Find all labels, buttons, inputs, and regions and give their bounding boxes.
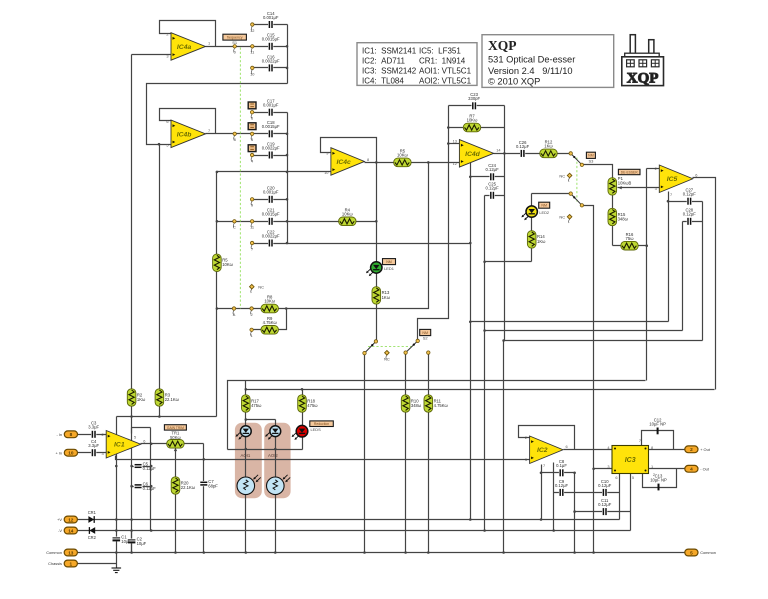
svg-text:0.12μF: 0.12μF: [143, 466, 157, 471]
wire row-B IC5 output feed: [246, 389, 715, 391]
wire C28 row: [683, 221, 703, 223]
svg-text:0.0015μF: 0.0015μF: [262, 124, 280, 129]
capacitor C6: [134, 482, 156, 491]
svg-text:3: 3: [525, 457, 527, 462]
resistor R16: [621, 232, 638, 250]
svg-text:NM: NM: [541, 204, 547, 208]
wire IC5 output: [693, 178, 716, 390]
svg-text:0.001μF: 0.001μF: [263, 190, 279, 195]
svg-text:68pF: 68pF: [208, 483, 218, 488]
svg-text:1Kω: 1Kω: [137, 397, 146, 402]
svg-text:A: A: [233, 312, 236, 317]
svg-text:2: 2: [690, 447, 693, 452]
wire R4 row right: [356, 221, 377, 223]
NC node stage select: [250, 284, 255, 293]
op-amp IC4c: [324, 148, 369, 176]
svg-text:7: 7: [251, 246, 253, 251]
svg-text:AOI2: VTL5C1: AOI2: VTL5C1: [419, 76, 472, 85]
node 4: [250, 153, 254, 163]
svg-text:6: 6: [695, 173, 697, 178]
svg-text:CR1: 1N914: CR1: 1N914: [419, 56, 466, 65]
wire IC4d pin4 column: [470, 161, 472, 322]
capacitor C16: [262, 54, 280, 72]
capacitor C25: [486, 182, 500, 200]
op-amp IC2: [525, 435, 568, 468]
wire LED2-R14 column: [531, 194, 533, 262]
wire -V drop x484: [484, 331, 486, 531]
node 2: [250, 307, 253, 317]
svg-text:CR2: CR2: [88, 535, 97, 540]
resistor R17: [242, 395, 263, 412]
svg-text:330pF: 330pF: [468, 96, 480, 101]
svg-text:NC: NC: [384, 356, 390, 361]
svg-text:9: 9: [326, 151, 328, 156]
wire S3-lower input row: [532, 193, 571, 195]
resistor R12: [540, 140, 557, 158]
wire C2 stub: [131, 531, 133, 553]
svg-text:5: 5: [134, 435, 136, 440]
svg-text:5: 5: [690, 550, 693, 555]
svg-text:NM: NM: [422, 331, 428, 335]
wire C20 row: [253, 199, 288, 201]
capacitor C10: [598, 479, 612, 497]
capacitor C4: [88, 439, 99, 457]
svg-text:GAIN TRIM: GAIN TRIM: [167, 426, 184, 430]
terminal 1 (Chassis): [48, 560, 77, 567]
jumper pad J1: [248, 123, 256, 130]
svg-text:7: 7: [208, 128, 210, 133]
terminal 4 (-Out): [685, 465, 710, 472]
capacitor C28: [683, 208, 697, 226]
wire C17 row: [253, 112, 288, 114]
svg-text:DE-ESSER: DE-ESSER: [621, 170, 638, 174]
svg-text:9: 9: [251, 203, 253, 208]
svg-text:10KωB: 10KωB: [618, 180, 632, 185]
svg-text:IC5: LF351: IC5: LF351: [419, 46, 461, 55]
svg-text:0.0022μF: 0.0022μF: [262, 145, 280, 150]
wire node-A row: [217, 163, 429, 309]
svg-text:© 2010 XQP: © 2010 XQP: [488, 77, 540, 87]
svg-text:75ω: 75ω: [626, 236, 635, 241]
svg-text:5: 5: [251, 137, 253, 142]
resistor R9: [261, 316, 278, 334]
wire common drop x503: [503, 341, 505, 553]
capacitor C1 (electrolytic): [112, 534, 132, 543]
svg-text:3: 3: [607, 464, 609, 469]
wire C11 row: [575, 511, 631, 513]
node 7: [250, 241, 253, 251]
svg-text:Reduction: Reduction: [314, 422, 329, 426]
label box S3: [586, 152, 595, 163]
svg-text:3: 3: [655, 186, 657, 191]
wire stage-B right bus: [287, 113, 289, 244]
svg-text:22.1Kω: 22.1Kω: [181, 485, 196, 490]
svg-text:NC: NC: [559, 215, 565, 220]
wire IC4c feedback loop: [321, 138, 377, 163]
svg-text:IC1: SSM2141: IC1: SSM2141: [362, 46, 417, 55]
wire IC4a output row: [206, 46, 288, 48]
wire -Out row: [649, 468, 685, 470]
svg-text:3.3μF: 3.3μF: [88, 443, 99, 448]
svg-text:IC1: IC1: [114, 442, 125, 449]
resistor R13: [372, 287, 391, 304]
wire C22 row: [253, 243, 288, 245]
wire TR1 wiper R20 column: [175, 448, 177, 553]
svg-text:10Kω: 10Kω: [222, 262, 233, 267]
capacitor C27: [683, 188, 697, 206]
jumper pad J3: [248, 145, 256, 152]
svg-text:1: 1: [651, 464, 653, 469]
svg-text:0.12μF: 0.12μF: [516, 144, 530, 149]
wire IC2 pin7 column: [541, 465, 543, 520]
svg-text:1: 1: [251, 333, 253, 338]
svg-text:0.0022μF: 0.0022μF: [262, 233, 280, 238]
node S2 throw left: [363, 351, 366, 354]
svg-text:3.3μF: 3.3μF: [88, 425, 99, 430]
LED blue AOI2: [265, 426, 281, 440]
wire stage-A return to IC4b: [147, 84, 288, 145]
wire IC4d pin13 row: [449, 143, 460, 145]
resistor R5: [213, 254, 234, 271]
svg-text:2: 2: [102, 432, 104, 437]
resistor R5b: [394, 149, 411, 167]
capacitor C21: [262, 208, 280, 226]
svg-text:6: 6: [615, 475, 617, 480]
svg-text:S3: S3: [588, 158, 594, 163]
resistor R7: [463, 114, 480, 132]
capacitor C14: [263, 11, 279, 29]
wire IC5 pin2 row: [647, 168, 660, 170]
resistor R15: [608, 208, 629, 225]
wire photocell2 bottom: [275, 495, 277, 553]
terminal 14 (-V): [58, 527, 77, 534]
svg-text:13: 13: [68, 550, 74, 555]
resistor R3: [155, 389, 180, 406]
op-amp IC4a: [166, 32, 210, 61]
label box reduction LEDs: [310, 421, 334, 427]
svg-text:10Kω: 10Kω: [467, 118, 478, 123]
svg-text:531 Optical De-esser: 531 Optical De-esser: [488, 55, 575, 65]
potentiometer P1: [608, 178, 617, 195]
svg-text:2: 2: [655, 166, 657, 171]
wire IC4a feedback loop: [160, 21, 216, 47]
wire LED cathode row: [228, 449, 303, 451]
wire C9C10 row: [554, 492, 620, 494]
svg-text:2: 2: [166, 32, 168, 37]
svg-text:XQP: XQP: [627, 70, 659, 86]
svg-text:12: 12: [68, 517, 74, 522]
node 11: [250, 45, 254, 55]
wire rail row y330: [485, 330, 683, 332]
wire R9 row: [253, 309, 287, 330]
svg-text:0.12μF: 0.12μF: [598, 502, 612, 507]
LED LED2 (yellow): [521, 206, 537, 220]
svg-text:Version 2.4 9/11/10: Version 2.4 9/11/10: [488, 66, 573, 76]
capacitor C12: [649, 417, 666, 434]
node S3 upper throw: [580, 163, 583, 166]
svg-text:0.12μF: 0.12μF: [555, 483, 569, 488]
wire C16 row: [253, 67, 288, 69]
svg-text:IC3: IC3: [625, 457, 636, 464]
svg-text:NM: NM: [386, 260, 392, 264]
svg-text:XQP: XQP: [488, 38, 517, 53]
capacitor C11: [598, 498, 612, 516]
svg-text:IC4c: IC4c: [336, 159, 351, 166]
capacitor C20: [263, 186, 279, 204]
switch S3 upper lever: [571, 153, 582, 164]
wire rail row y340: [504, 340, 703, 342]
wire IC2 feedback loop: [519, 426, 575, 450]
wire IC2 output row: [564, 449, 613, 451]
node S2 common right: [416, 339, 419, 342]
svg-text:AOI2: AOI2: [268, 453, 278, 458]
resistor R10: [401, 395, 422, 412]
svg-text:0.0022μF: 0.0022μF: [262, 58, 280, 63]
wire AOI2 LED column: [275, 420, 277, 478]
node S2 common left: [374, 340, 377, 343]
svg-text:- In: - In: [56, 432, 62, 437]
node C: [233, 220, 236, 230]
op-amp IC1: [102, 431, 146, 459]
svg-text:LED1: LED1: [384, 266, 394, 271]
label box de-esser: [618, 169, 640, 174]
svg-text:AOI1: AOI1: [241, 453, 251, 458]
IC IC3 (SSM2142): [607, 438, 655, 480]
op-amp IC4b: [166, 119, 210, 148]
wire stage-A right bus: [287, 25, 289, 84]
svg-text:14: 14: [68, 528, 74, 533]
svg-text:0.0015μF: 0.0015μF: [262, 212, 280, 217]
svg-text:Chassis: Chassis: [48, 561, 62, 566]
wire R17 column: [245, 381, 247, 478]
svg-text:IC4: TL084: IC4: TL084: [362, 76, 404, 85]
wire rail row y321: [471, 321, 669, 323]
switch S2 left lever: [365, 341, 376, 353]
wire IC4b output row: [206, 133, 288, 135]
svg-text:0.12μF: 0.12μF: [683, 212, 697, 217]
wire R2 column: [131, 55, 133, 553]
svg-text:6: 6: [251, 116, 253, 121]
wire C23 left bus down to S2: [418, 106, 449, 341]
wire R14 bottom row: [485, 261, 532, 263]
svg-text:0.12μF: 0.12μF: [683, 192, 697, 197]
svg-text:1: 1: [69, 561, 72, 566]
svg-text:IC2: IC2: [537, 447, 548, 454]
terminal 13 (Common): [46, 549, 77, 556]
ground (chassis): [112, 568, 122, 573]
capacitor C22: [262, 229, 280, 247]
resistor R14: [527, 231, 546, 248]
potentiometer P1 wiper arrow: [618, 186, 621, 189]
wire P1-R15 column: [612, 178, 614, 246]
svg-text:6: 6: [566, 444, 568, 449]
resistor R18: [298, 395, 319, 412]
wire IC5 pin7 column: [668, 192, 670, 322]
wire S3 upper output: [582, 165, 613, 178]
svg-text:NC: NC: [559, 173, 565, 178]
label box frequency (S1): [223, 34, 247, 45]
wire C23 top loop: [449, 105, 505, 107]
capacitor C7: [199, 479, 218, 488]
terminal 12 (+V): [57, 516, 77, 523]
svg-text:1Kω: 1Kω: [537, 239, 546, 244]
capacitor C3: [88, 421, 99, 439]
wire S3 lower output: [582, 206, 594, 553]
svg-text:0.001μF: 0.001μF: [263, 15, 279, 20]
resistor R2: [127, 389, 146, 406]
wire -V rail: [78, 530, 631, 532]
terminal 5 (Common): [685, 549, 716, 556]
capacitor C5: [134, 461, 156, 470]
svg-text:LEDS: LEDS: [311, 427, 322, 432]
svg-text:1Kω: 1Kω: [382, 295, 391, 300]
node 6: [250, 111, 253, 121]
svg-text:10Kω: 10Kω: [342, 211, 353, 216]
LED red reduction: [292, 425, 308, 439]
opto-isolator AOI1 background: [235, 423, 262, 499]
svg-text:11: 11: [250, 50, 254, 55]
node 0: [233, 45, 237, 55]
node 10: [250, 66, 255, 76]
svg-text:10μF NP: 10μF NP: [650, 477, 667, 482]
wire R16 row: [613, 245, 647, 247]
wire IC1 out drop / C7 column: [203, 444, 205, 553]
wire -In row: [78, 434, 107, 436]
opto-isolator AOI2 background: [264, 423, 290, 499]
NC node S2: [384, 351, 390, 362]
svg-text:IC4a: IC4a: [177, 44, 192, 51]
wire C8 row: [542, 472, 575, 474]
capacitor C15: [262, 33, 280, 51]
svg-text:10μF: 10μF: [121, 539, 131, 544]
wire bias row y416: [117, 416, 217, 418]
capacitor C9: [555, 479, 569, 497]
wire IC4a pin3 input: [132, 54, 172, 56]
svg-text:NM: NM: [588, 154, 594, 158]
node S2 throw R11: [427, 351, 430, 354]
wire IC4c output row: [365, 162, 460, 164]
svg-text:348ω: 348ω: [411, 403, 422, 408]
wire C27 row: [669, 201, 703, 203]
node S3 lower common: [569, 192, 572, 195]
trimmer TR1 wiper arrow: [174, 448, 177, 451]
svg-text:0.12μF: 0.12μF: [486, 186, 500, 191]
wire R7 row: [449, 127, 505, 129]
diode CR2: [88, 527, 97, 540]
svg-text:12: 12: [453, 161, 457, 166]
svg-text:AOI1: VTL5C1: AOI1: VTL5C1: [419, 66, 472, 75]
wire C25 row: [485, 195, 505, 197]
svg-text:Common: Common: [46, 550, 62, 555]
svg-text:3: 3: [102, 451, 104, 456]
svg-text:2: 2: [251, 312, 253, 317]
node 9: [250, 198, 253, 208]
svg-text:7: 7: [543, 463, 545, 468]
node S2 throw R10: [404, 351, 407, 354]
wire C5C6 right column: [150, 428, 152, 531]
wire IC4b feedback loop: [160, 109, 216, 134]
svg-text:4.75Kω: 4.75Kω: [434, 403, 449, 408]
svg-text:3: 3: [166, 54, 168, 59]
wire AOI LED jog row: [246, 419, 276, 421]
svg-text:- Out: - Out: [700, 466, 710, 471]
NC node S3 lower: [559, 215, 572, 224]
capacitor C13: [650, 473, 667, 490]
terminal 2 (+Out): [685, 446, 711, 453]
svg-text:CR1: CR1: [88, 510, 97, 515]
svg-text:IC2: AD711: IC2: AD711: [362, 56, 406, 65]
wire C5 row: [132, 466, 151, 468]
terminal 8 (-In): [56, 431, 77, 438]
NC node S3 upper: [559, 173, 572, 182]
resistor R8: [261, 295, 278, 313]
svg-text:7: 7: [670, 192, 672, 197]
svg-text:0.001μF: 0.001μF: [263, 103, 279, 108]
wire C14 row: [253, 24, 288, 26]
svg-text:LED2: LED2: [539, 210, 549, 215]
svg-text:IC5: IC5: [667, 176, 678, 183]
svg-text:IC4b: IC4b: [177, 131, 192, 138]
resistor R11: [424, 395, 449, 412]
wire C19 row: [253, 155, 288, 157]
svg-text:4.75Kω: 4.75Kω: [263, 320, 278, 325]
node 11b: [250, 220, 254, 230]
svg-text:8: 8: [367, 157, 369, 162]
wire C22 row extension: [288, 243, 471, 245]
wire IC2 pin5 column: [553, 463, 555, 531]
svg-text:50Kω: 50Kω: [170, 435, 181, 440]
svg-text:8: 8: [234, 137, 236, 142]
wire S2 alt throw R11 column: [428, 353, 430, 553]
wire C6 row: [132, 486, 151, 488]
wire +V rail: [78, 519, 620, 521]
IC list box: [357, 43, 477, 86]
svg-text:475ω: 475ω: [251, 403, 262, 408]
capacitor C23: [468, 92, 480, 110]
svg-text:6: 6: [143, 439, 145, 444]
op-amp IC4d: [453, 139, 502, 168]
wire row-A LED cathode feed: [228, 381, 646, 450]
svg-text:1: 1: [208, 41, 210, 46]
label box GAIN TRIM: [164, 425, 186, 430]
XQP factory logo: [622, 35, 664, 87]
wire C13 loop: [643, 469, 677, 488]
resistor R4: [339, 207, 356, 225]
wire R3 column: [159, 145, 161, 417]
label box S2: [420, 329, 431, 340]
wire IC1 output row: [141, 443, 204, 445]
svg-text:348ω: 348ω: [618, 216, 629, 221]
svg-text:11: 11: [250, 225, 254, 230]
svg-text:0.12μF: 0.12μF: [486, 167, 500, 172]
svg-text:5: 5: [632, 475, 634, 480]
S2 gang dashed line: [368, 346, 413, 348]
svg-text:IC3: SSM2142: IC3: SSM2142: [362, 66, 417, 75]
svg-text:6: 6: [166, 119, 168, 124]
wire C27 right column: [702, 202, 704, 341]
svg-text:0.1μF: 0.1μF: [556, 463, 567, 468]
wire IC4c feedback vertical / LED1 column: [376, 163, 378, 342]
svg-text:10μF NP: 10μF NP: [649, 421, 666, 426]
S1 gang dashed line: [239, 48, 241, 309]
wire R18 red-LED column: [302, 390, 304, 450]
svg-text:475ω: 475ω: [307, 403, 318, 408]
terminal 10 (+In): [55, 449, 77, 456]
wire common rail: [78, 552, 685, 554]
wire C1 ground column: [116, 417, 118, 569]
LED LED1 (green): [366, 262, 382, 276]
wire IC4d output row: [494, 153, 571, 155]
